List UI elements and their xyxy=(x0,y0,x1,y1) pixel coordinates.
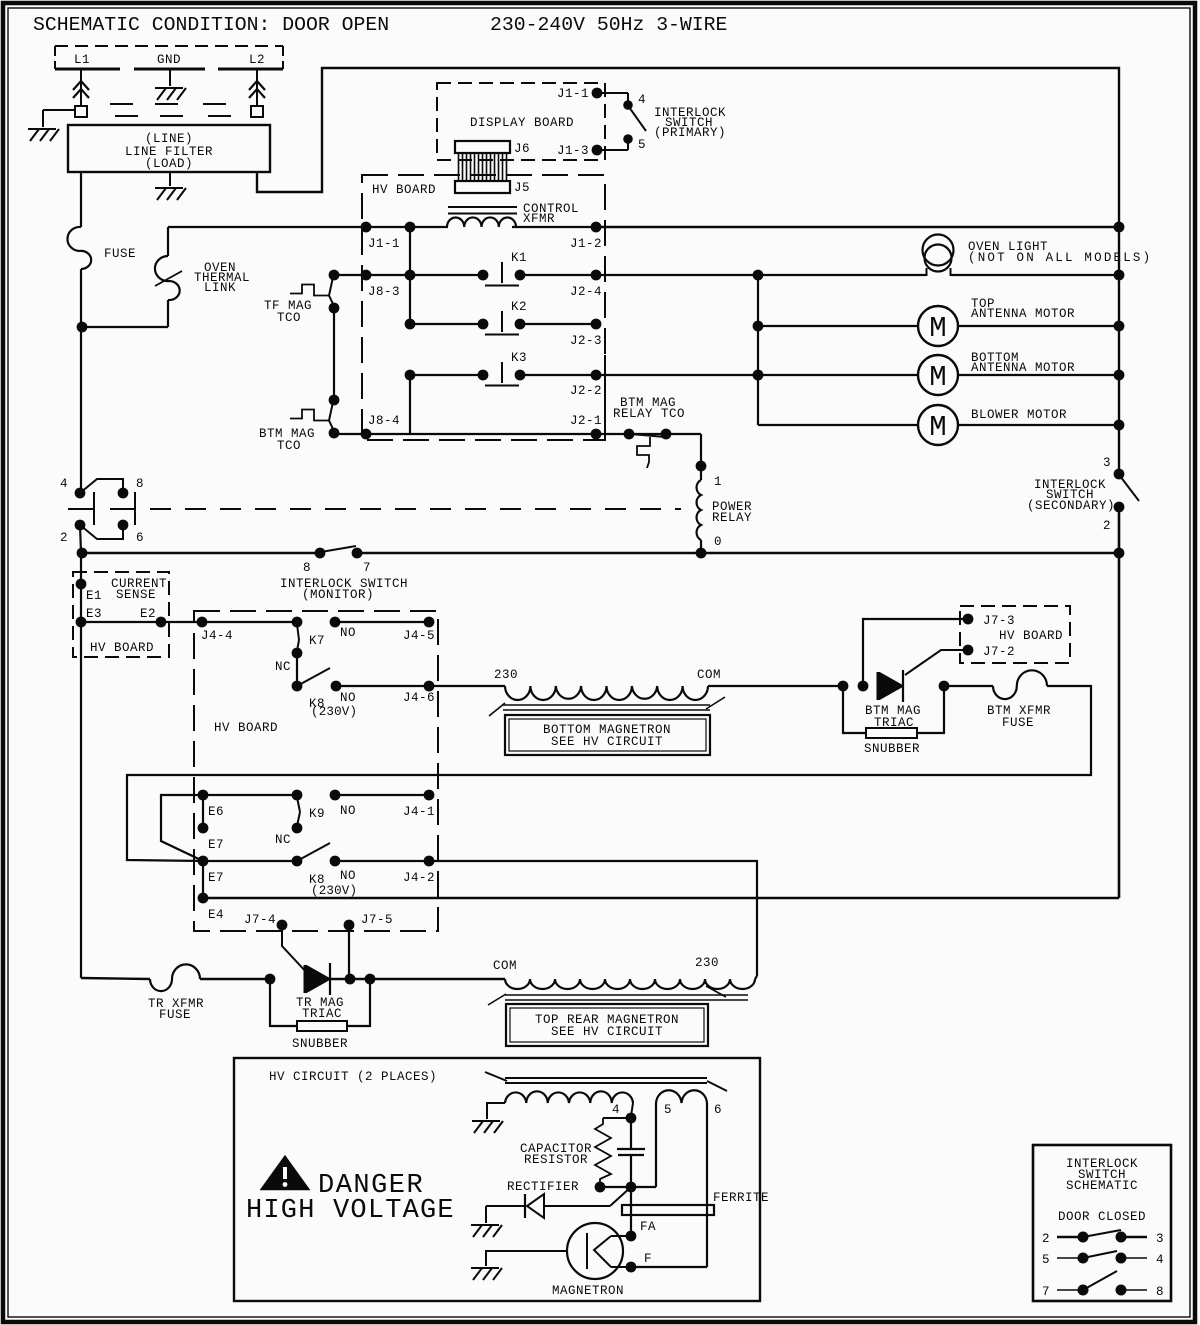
svg-text:J4-5: J4-5 xyxy=(403,629,435,643)
svg-text:SCHEMATIC CONDITION: DOOR OPEN: SCHEMATIC CONDITION: DOOR OPEN xyxy=(33,14,389,36)
svg-text:3: 3 xyxy=(1156,1232,1164,1246)
svg-text:NO: NO xyxy=(340,869,356,883)
svg-text:TCO: TCO xyxy=(277,311,301,325)
svg-text:0: 0 xyxy=(714,535,722,549)
svg-text:COM: COM xyxy=(697,668,721,682)
svg-text:ANTENNA MOTOR: ANTENNA MOTOR xyxy=(971,307,1075,321)
svg-text:4: 4 xyxy=(612,1103,620,1117)
svg-text:RELAY: RELAY xyxy=(712,511,752,525)
svg-text:230: 230 xyxy=(695,956,719,970)
svg-text:E2: E2 xyxy=(140,607,156,621)
svg-text:FUSE: FUSE xyxy=(1002,716,1034,730)
svg-text:4: 4 xyxy=(638,93,646,107)
svg-text:J2-3: J2-3 xyxy=(570,334,602,348)
svg-text:BLOWER MOTOR: BLOWER MOTOR xyxy=(971,408,1067,422)
svg-text:(230V): (230V) xyxy=(311,705,357,719)
svg-text:J8-3: J8-3 xyxy=(368,285,400,299)
svg-text:J2-4: J2-4 xyxy=(570,285,602,299)
svg-text:E4: E4 xyxy=(208,908,224,922)
svg-text:E7: E7 xyxy=(208,838,224,852)
svg-text:NC: NC xyxy=(275,660,291,674)
svg-text:TRIAC: TRIAC xyxy=(302,1007,342,1021)
svg-text:2: 2 xyxy=(1042,1232,1050,1246)
svg-text:GND: GND xyxy=(157,53,181,67)
svg-text:SENSE: SENSE xyxy=(116,588,156,602)
svg-text:LINK: LINK xyxy=(204,281,236,295)
svg-text:6: 6 xyxy=(714,1103,722,1117)
svg-text:XFMR: XFMR xyxy=(523,212,555,226)
svg-text:(MONITOR): (MONITOR) xyxy=(302,588,374,602)
svg-text:ANTENNA MOTOR: ANTENNA MOTOR xyxy=(971,361,1075,375)
svg-text:SEE HV CIRCUIT: SEE HV CIRCUIT xyxy=(551,735,663,749)
svg-text:J2-1: J2-1 xyxy=(570,414,602,428)
svg-text:230-240V 50Hz 3-WIRE: 230-240V 50Hz 3-WIRE xyxy=(490,14,727,36)
svg-text:FUSE: FUSE xyxy=(159,1008,191,1022)
svg-text:J7-4: J7-4 xyxy=(244,913,276,927)
svg-text:NO: NO xyxy=(340,804,356,818)
svg-text:M: M xyxy=(929,411,946,444)
svg-text:(PRIMARY): (PRIMARY) xyxy=(654,126,726,140)
svg-text:1: 1 xyxy=(714,475,722,489)
svg-text:2: 2 xyxy=(1103,519,1111,533)
svg-text:E6: E6 xyxy=(208,805,224,819)
svg-text:DISPLAY BOARD: DISPLAY BOARD xyxy=(470,116,574,130)
svg-text:J1-1: J1-1 xyxy=(557,87,589,101)
svg-text:SNUBBER: SNUBBER xyxy=(292,1037,348,1051)
svg-text:7: 7 xyxy=(363,561,371,575)
svg-text:E1: E1 xyxy=(86,589,102,603)
svg-text:8: 8 xyxy=(136,477,144,491)
svg-text:J1-3: J1-3 xyxy=(557,144,589,158)
svg-text:(LINE): (LINE) xyxy=(145,132,193,146)
svg-text:FERRITE: FERRITE xyxy=(713,1191,769,1205)
svg-text:NO: NO xyxy=(340,626,356,640)
svg-text:J8-4: J8-4 xyxy=(368,414,400,428)
svg-text:5: 5 xyxy=(664,1103,672,1117)
svg-text:RELAY TCO: RELAY TCO xyxy=(613,407,685,421)
svg-text:SNUBBER: SNUBBER xyxy=(864,742,920,756)
svg-text:MAGNETRON: MAGNETRON xyxy=(552,1284,624,1298)
svg-text:FA: FA xyxy=(640,1220,656,1234)
svg-text:HV CIRCUIT (2 PLACES): HV CIRCUIT (2 PLACES) xyxy=(269,1070,437,1084)
svg-text:DOOR CLOSED: DOOR CLOSED xyxy=(1058,1210,1146,1224)
svg-text:J7-3: J7-3 xyxy=(983,614,1015,628)
svg-text:HV BOARD: HV BOARD xyxy=(999,629,1063,643)
svg-text:HV BOARD: HV BOARD xyxy=(214,721,278,735)
svg-text:HIGH VOLTAGE: HIGH VOLTAGE xyxy=(246,1196,455,1226)
svg-text:SCHEMATIC: SCHEMATIC xyxy=(1066,1179,1138,1193)
svg-text:J2-2: J2-2 xyxy=(570,384,602,398)
svg-text:3: 3 xyxy=(1103,456,1111,470)
svg-text:COM: COM xyxy=(493,959,517,973)
svg-text:6: 6 xyxy=(136,531,144,545)
svg-text:230: 230 xyxy=(494,668,518,682)
svg-text:HV BOARD: HV BOARD xyxy=(90,641,154,655)
svg-text:4: 4 xyxy=(1156,1253,1164,1267)
svg-text:4: 4 xyxy=(60,477,68,491)
svg-text:L1: L1 xyxy=(74,53,90,67)
svg-text:J7-2: J7-2 xyxy=(983,645,1015,659)
svg-text:K9: K9 xyxy=(309,807,325,821)
svg-text:TCO: TCO xyxy=(277,439,301,453)
svg-text:J4-6: J4-6 xyxy=(403,691,435,705)
svg-text:J6: J6 xyxy=(514,142,530,156)
svg-text:K2: K2 xyxy=(511,300,527,314)
svg-text:8: 8 xyxy=(1156,1285,1164,1299)
svg-text:M: M xyxy=(929,361,946,394)
svg-text:J1-1: J1-1 xyxy=(368,237,400,251)
svg-text:E3: E3 xyxy=(86,607,102,621)
svg-text:7: 7 xyxy=(1042,1285,1050,1299)
svg-text:(SECONDARY): (SECONDARY) xyxy=(1027,499,1115,513)
svg-text:5: 5 xyxy=(1042,1253,1050,1267)
svg-text:HV BOARD: HV BOARD xyxy=(372,183,436,197)
svg-text:J5: J5 xyxy=(514,181,530,195)
svg-text:F: F xyxy=(644,1252,652,1266)
svg-text:K1: K1 xyxy=(511,251,527,265)
svg-text:(LOAD): (LOAD) xyxy=(145,157,193,171)
svg-text:2: 2 xyxy=(60,531,68,545)
svg-text:K3: K3 xyxy=(511,351,527,365)
svg-text:RECTIFIER: RECTIFIER xyxy=(507,1180,579,1194)
svg-text:NC: NC xyxy=(275,833,291,847)
svg-text:J4-1: J4-1 xyxy=(403,805,435,819)
svg-text:FUSE: FUSE xyxy=(104,247,136,261)
svg-text:K7: K7 xyxy=(309,634,325,648)
svg-text:SEE HV CIRCUIT: SEE HV CIRCUIT xyxy=(551,1025,663,1039)
svg-text:J7-5: J7-5 xyxy=(361,913,393,927)
svg-text:J4-2: J4-2 xyxy=(403,871,435,885)
svg-text:(230V): (230V) xyxy=(311,884,357,898)
svg-text:5: 5 xyxy=(638,138,646,152)
svg-text:J4-4: J4-4 xyxy=(201,629,233,643)
svg-text:RESISTOR: RESISTOR xyxy=(524,1153,588,1167)
svg-text:NO: NO xyxy=(340,691,356,705)
svg-text:E7: E7 xyxy=(208,871,224,885)
svg-text:8: 8 xyxy=(303,561,311,575)
svg-text:J1-2: J1-2 xyxy=(570,237,602,251)
svg-text:M: M xyxy=(929,312,946,345)
svg-text:(NOT ON ALL MODELS): (NOT ON ALL MODELS) xyxy=(968,251,1152,265)
svg-text:L2: L2 xyxy=(249,53,265,67)
